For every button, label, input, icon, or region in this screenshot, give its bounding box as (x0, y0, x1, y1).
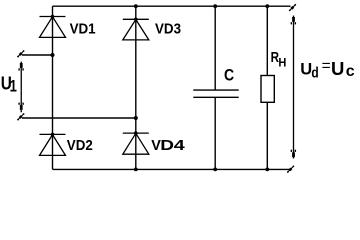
arrow Ud output voltage (291, 16, 296, 159)
node VD4 cathode (134, 131, 138, 135)
wire AC input stub upper (22, 54, 53, 56)
label Ud=Uc (300, 58, 355, 82)
svg-text:VD1: VD1 (70, 20, 96, 37)
label U1 (1, 73, 17, 96)
diode VD3 (123, 19, 149, 40)
node top rail / VD3 leg (134, 4, 138, 8)
resistor RH body (261, 76, 274, 103)
svg-text:VD3: VD3 (155, 20, 181, 37)
arrow U1 input voltage (18, 62, 23, 113)
wire VD3/VD4 leg (135, 6, 137, 169)
wire resistor branch (266, 6, 268, 169)
label VD1 (70, 20, 96, 37)
node bottom rail / resistor branch (265, 168, 269, 172)
node top rail / resistor branch (265, 4, 269, 8)
node bottom rail / VD4 leg (134, 168, 138, 172)
node AC input upper on VD1/VD2 leg (51, 53, 55, 57)
diode VD2 (40, 134, 66, 155)
label VD2 (67, 137, 93, 154)
node VD1 cathode (51, 15, 55, 19)
svg-text:VD2: VD2 (67, 137, 93, 154)
label RH (271, 49, 287, 70)
wire capacitor branch (214, 6, 216, 169)
label C (224, 67, 234, 85)
node bottom rail / capacitor branch (213, 168, 217, 172)
node top rail / capacitor branch (213, 4, 217, 8)
terminal lower left (17, 113, 24, 120)
diode VD4 (123, 133, 149, 154)
svg-text:D: D (160, 137, 174, 153)
svg-text:1: 1 (10, 78, 17, 96)
wire AC input stub lower (22, 117, 136, 119)
diode VD1 (40, 17, 66, 38)
node VD2 cathode (51, 133, 55, 137)
label VD4 (151, 137, 185, 154)
svg-text:C: C (224, 67, 234, 85)
terminal upper left (17, 50, 24, 57)
wire top rail (53, 5, 291, 7)
label VD3 (155, 20, 181, 37)
svg-text:U: U (300, 61, 312, 79)
svg-text:d: d (311, 64, 318, 81)
wire bottom rail (53, 168, 290, 170)
terminal upper right (289, 4, 296, 11)
svg-text:=: = (322, 58, 331, 75)
capacitor C plates (193, 90, 238, 97)
node VD3 cathode (134, 18, 138, 22)
node AC input lower on VD3/VD4 leg (134, 116, 138, 120)
svg-text:4: 4 (174, 137, 185, 154)
svg-text:U: U (331, 58, 344, 79)
terminal lower right (287, 166, 294, 173)
wire VD1/VD2 leg (52, 6, 54, 169)
svg-text:H: H (278, 57, 286, 69)
svg-text:c: c (346, 63, 355, 80)
